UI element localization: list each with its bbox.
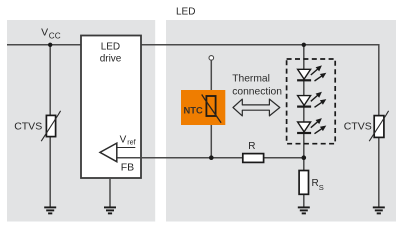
comparator U1 triangle (100, 143, 117, 162)
svg-text:CTVS: CTVS (344, 120, 372, 132)
left gray panel (7, 20, 155, 222)
label Vcc (41, 27, 61, 41)
thermal coupling double arrow (233, 99, 280, 116)
LED D1 (297, 65, 326, 81)
op-amp box LED drive (81, 36, 141, 179)
svg-text:R: R (312, 178, 319, 189)
svg-text:Thermal: Thermal (232, 74, 270, 85)
svg-text:S: S (319, 183, 324, 192)
svg-text:LED: LED (101, 41, 120, 52)
svg-text:ref: ref (127, 138, 135, 147)
label Vref (120, 134, 136, 146)
varistor CTVS left (41, 111, 60, 141)
svg-text:V: V (120, 134, 127, 145)
wire top rail Vcc (7, 45, 379, 207)
varistor CTVS right (369, 111, 388, 141)
wire NTC branch (210, 60, 212, 158)
svg-text:V: V (41, 27, 48, 39)
ground LED drive (104, 207, 116, 213)
wire Vref input (117, 147, 135, 149)
thermistor NTC symbol (202, 95, 221, 123)
svg-text:CC: CC (49, 31, 61, 40)
resistor Rs (299, 171, 308, 195)
ground left CTVS (44, 207, 56, 213)
ground right CTVS (373, 207, 385, 213)
wire Vcc branch to left CTVS (49, 45, 51, 207)
svg-text:drive: drive (100, 54, 122, 65)
NTC orange highlight box (181, 90, 225, 125)
node LED string top junction (302, 43, 306, 47)
svg-text:connection: connection (232, 86, 282, 97)
resistor R (243, 154, 264, 163)
ground Rs (298, 207, 310, 213)
LED module dashed box (287, 59, 336, 144)
node NTC-FB junction (209, 155, 214, 160)
label Thermal connection (232, 74, 282, 98)
wire LED string (303, 45, 305, 207)
node R-Rs junction (302, 155, 307, 160)
svg-text:CTVS: CTVS (14, 120, 42, 132)
node Vcc junction (48, 43, 52, 47)
svg-text:LED: LED (176, 7, 195, 18)
node NTC open terminal (209, 56, 214, 61)
LED D3 (297, 118, 326, 134)
wire FB feedback line (117, 157, 304, 159)
label Rs (312, 178, 324, 192)
svg-text:NTC: NTC (184, 104, 203, 115)
svg-text:R: R (248, 141, 255, 152)
LED D2 (297, 92, 326, 108)
right gray panel (LED module) (166, 20, 396, 222)
wire LED drive ground (109, 178, 111, 207)
svg-text:FB: FB (121, 162, 134, 174)
